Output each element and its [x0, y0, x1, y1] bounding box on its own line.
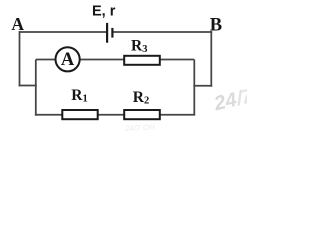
resistor R3 box [124, 56, 160, 65]
wire: middle branch R3 to right [160, 59, 194, 61]
wire: middle branch ammeter to R3 [81, 59, 125, 61]
watermark 247 [211, 85, 255, 116]
wire: bottom branch left segment [35, 114, 63, 116]
wire: middle branch left segment [36, 59, 56, 61]
wire: left inner vertical [35, 60, 37, 116]
wire: top left A to battery [20, 31, 107, 33]
battery E,r long plate [106, 23, 108, 43]
svg-text:24/7 OH: 24/7 OH [124, 123, 155, 131]
wire: right outer vertical from B [210, 31, 212, 87]
svg-text:A: A [11, 14, 24, 34]
battery E,r short plate [111, 28, 113, 38]
wire: battery to top right B [113, 31, 212, 33]
resistor R2 box [124, 110, 160, 119]
wire: left outer vertical from A [19, 31, 21, 86]
wire: right inner vertical [193, 60, 195, 115]
ammeter U1 circle [56, 47, 80, 71]
wire: bottom branch R2 to right [159, 114, 195, 116]
wire: bottom branch R1 to R2 [98, 114, 125, 116]
svg-text:A: A [61, 50, 75, 70]
wire: right jog horizontal [193, 85, 212, 87]
resistor R1 box [62, 110, 97, 119]
wire: left jog horizontal [19, 85, 37, 87]
svg-text:B: B [210, 16, 222, 36]
svg-text:E, r: E, r [92, 4, 116, 20]
